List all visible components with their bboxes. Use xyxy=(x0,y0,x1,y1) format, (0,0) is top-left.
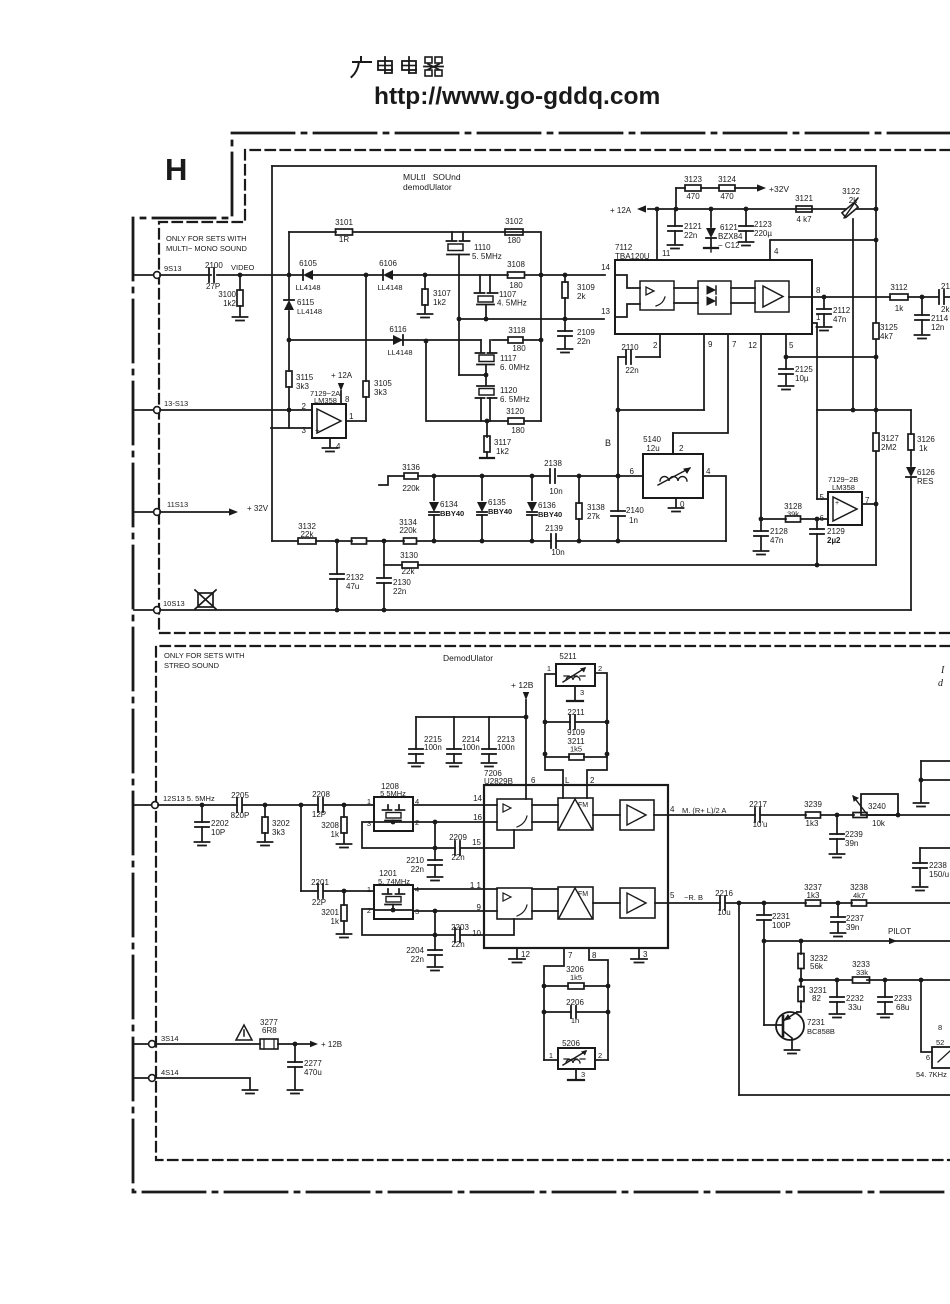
capacitor 2217 10u xyxy=(749,800,767,829)
svg-text:56k: 56k xyxy=(810,962,824,971)
svg-text:12: 12 xyxy=(748,341,757,350)
capacitor 2114 12n xyxy=(915,297,949,339)
terminal 11S13 +32V xyxy=(134,500,269,516)
svg-text:2123: 2123 xyxy=(754,220,772,229)
wire 3120 row xyxy=(426,341,541,423)
op-amp ground pin4 xyxy=(323,438,338,452)
svg-text:1: 1 xyxy=(547,664,551,673)
wire 3S14 +12B xyxy=(155,1040,342,1049)
svg-text:39k: 39k xyxy=(787,510,799,519)
svg-text:BZX84: BZX84 xyxy=(718,232,743,241)
resistor 3120 180 xyxy=(506,407,525,435)
svg-text:+ 12B: + 12B xyxy=(321,1040,342,1049)
svg-text:100n: 100n xyxy=(424,743,442,752)
capacitor 2129 2u2 xyxy=(810,519,845,565)
svg-text:2112: 2112 xyxy=(833,306,851,315)
capacitor 2202 10P xyxy=(195,805,230,846)
svg-text:BBY40: BBY40 xyxy=(440,509,464,518)
node B line xyxy=(605,438,611,448)
diode 6106 LL4148 xyxy=(377,259,402,292)
wire 4S14 to ground xyxy=(155,1078,258,1094)
svg-text:3: 3 xyxy=(580,688,584,697)
pin 8 output wire xyxy=(812,286,950,299)
resistor 3117 1k2 xyxy=(480,421,512,458)
IC internal wires xyxy=(615,275,812,317)
ground 5140 pin0 xyxy=(669,498,684,512)
wire 13S13 to op-amp pin2 xyxy=(160,408,312,413)
wire 3123 branch riser xyxy=(676,188,757,209)
svg-text:5 5MHz: 5 5MHz xyxy=(380,789,406,798)
resistor 3130 22k xyxy=(400,551,418,576)
variable inductor 5140 12u xyxy=(630,435,711,509)
svg-text:4: 4 xyxy=(706,467,711,476)
capacitor 2239 39n xyxy=(830,815,864,858)
power +12A rail xyxy=(610,205,876,215)
resistor 3101 1R xyxy=(335,218,353,244)
IC block demodulator diodes xyxy=(698,281,731,314)
svg-text:LL4148: LL4148 xyxy=(377,283,402,292)
svg-text:22n: 22n xyxy=(411,955,424,964)
wire to 5231 xyxy=(921,980,932,1052)
svg-text:5211: 5211 xyxy=(559,652,577,661)
wire +32V right rail xyxy=(874,166,879,565)
capacitor 2140 1n xyxy=(611,506,644,525)
wire op-amp pin3 xyxy=(271,427,312,429)
svg-text:10u: 10u xyxy=(717,908,730,917)
svg-text:1117: 1117 xyxy=(500,354,517,363)
stereo title Demodulator xyxy=(443,653,493,663)
svg-text:STREO SOUND: STREO SOUND xyxy=(164,661,220,670)
svg-text:3130: 3130 xyxy=(400,551,418,560)
filter 1201 5.74MHz xyxy=(367,869,419,919)
node 3107 junction xyxy=(423,273,428,278)
svg-text:10S13: 10S13 xyxy=(163,599,185,608)
svg-text:11S13: 11S13 xyxy=(167,500,188,509)
resistor 3134 220k xyxy=(399,518,418,544)
svg-text:6135: 6135 xyxy=(488,498,506,507)
svg-text:2205: 2205 xyxy=(231,791,249,800)
svg-text:1n: 1n xyxy=(571,1016,579,1025)
svg-text:3105: 3105 xyxy=(374,379,392,388)
resistor 3132 22k xyxy=(298,522,316,544)
resonator 1117 6.0MHz xyxy=(459,340,530,377)
wire op-amp2 pin7 xyxy=(862,503,876,505)
svg-text:−R. B: −R. B xyxy=(684,893,703,902)
wire 3101 row xyxy=(289,231,540,233)
svg-text:6134: 6134 xyxy=(440,500,458,509)
resistor 3208 1k xyxy=(321,805,351,848)
capacitor 2232 33u xyxy=(830,980,865,1018)
svg-text:10n: 10n xyxy=(551,548,564,557)
svg-text:3127: 3127 xyxy=(881,434,899,443)
svg-text:5. 74MHz: 5. 74MHz xyxy=(378,877,410,886)
svg-text:+ 12A: + 12A xyxy=(610,206,632,215)
svg-text:2: 2 xyxy=(679,444,684,453)
resistor 3109 2k xyxy=(562,275,595,319)
svg-text:1k: 1k xyxy=(331,917,340,926)
svg-text:3: 3 xyxy=(643,950,648,959)
svg-text:39n: 39n xyxy=(846,923,859,932)
diode 6126 RES xyxy=(906,467,935,610)
svg-text:3100: 3100 xyxy=(218,290,236,299)
pin 11 wire xyxy=(657,209,671,260)
wire 1208 pin4 to IC pin14 xyxy=(413,794,484,805)
svg-text:100n: 100n xyxy=(462,743,480,752)
wire filter bus vertical x541 xyxy=(539,232,544,421)
svg-text:2238: 2238 xyxy=(929,861,947,870)
svg-text:22n: 22n xyxy=(577,337,590,346)
svg-text:2216: 2216 xyxy=(715,889,733,898)
svg-text:3S14: 3S14 xyxy=(161,1034,179,1043)
capacitor 2100 27P xyxy=(205,261,223,291)
svg-text:100P: 100P xyxy=(772,921,791,930)
svg-text:2k: 2k xyxy=(941,305,950,314)
capacitor 2125 10u xyxy=(779,357,814,390)
power +12A op-amp supply arrow xyxy=(331,371,353,404)
svg-text:2204: 2204 xyxy=(406,946,424,955)
svg-text:2129: 2129 xyxy=(827,527,845,536)
resistor 3232 56k xyxy=(798,941,828,980)
svg-text:220k: 220k xyxy=(399,526,417,535)
wire 3101 feedback column xyxy=(288,232,290,340)
capacitor 2216 10u xyxy=(715,889,733,917)
svg-text:L: L xyxy=(565,776,570,785)
pin 14 label xyxy=(601,263,610,272)
svg-text:3240: 3240 xyxy=(868,802,886,811)
svg-text:6106: 6106 xyxy=(379,259,397,268)
svg-text:3126: 3126 xyxy=(917,435,935,444)
IC2 internal wires xyxy=(484,785,668,935)
svg-text:3101: 3101 xyxy=(335,218,353,227)
stereo section dashed border xyxy=(156,646,950,1160)
svg-text:2: 2 xyxy=(598,1051,602,1060)
pin 2 wire and capacitor 2110 22n xyxy=(618,334,660,375)
capacitor 2214 100n xyxy=(447,717,481,767)
capacitor 2206 1n xyxy=(542,998,611,1025)
wire op-amp2 pin5 xyxy=(817,410,828,499)
wire B line vertical x618 xyxy=(616,357,621,541)
cut text top-right xyxy=(938,665,945,689)
wire video to 3105 link xyxy=(364,273,369,381)
svg-text:22n: 22n xyxy=(684,231,697,240)
pin 13 label xyxy=(601,307,610,316)
resistor 3136 220k xyxy=(402,463,421,493)
resonator 1120 6.5MHz xyxy=(476,375,530,421)
svg-text:9: 9 xyxy=(477,903,482,912)
svg-text:3123: 3123 xyxy=(684,175,702,184)
wire video to IC pin14 xyxy=(240,273,605,278)
svg-text:1: 1 xyxy=(349,412,354,421)
resistor 3201 1k xyxy=(321,891,351,938)
resistor 3108 180 xyxy=(507,260,525,290)
svg-text:22n: 22n xyxy=(451,853,464,862)
svg-text:1 1: 1 1 xyxy=(470,881,482,890)
svg-text:2209: 2209 xyxy=(449,833,467,842)
capacitor 2205 820P xyxy=(231,791,250,820)
IC2 pin3 ground xyxy=(631,948,648,963)
svg-text:12P: 12P xyxy=(312,810,326,819)
capacitor 2123 220u xyxy=(739,209,773,246)
capacitor 2237 39n xyxy=(831,903,865,937)
resistor 3107 1k2 xyxy=(418,275,452,318)
svg-text:2208: 2208 xyxy=(312,790,330,799)
svg-text:33k: 33k xyxy=(856,968,868,977)
svg-text:47u: 47u xyxy=(346,582,359,591)
svg-text:12: 12 xyxy=(521,950,530,959)
wire 5140 pin4 xyxy=(703,476,726,541)
svg-text:8: 8 xyxy=(816,286,821,295)
wire ground bus 10S13 xyxy=(160,608,911,613)
wire 5211 ladder left xyxy=(543,674,563,785)
svg-text:− C12: − C12 xyxy=(718,241,740,250)
svg-text:2231: 2231 xyxy=(772,912,790,921)
svg-text:B: B xyxy=(605,438,611,448)
pin 4 wire xyxy=(770,240,876,260)
svg-text:470: 470 xyxy=(686,192,700,201)
svg-text:820P: 820P xyxy=(231,811,250,820)
IC2 block amp B xyxy=(620,888,655,918)
svg-text:2109: 2109 xyxy=(577,328,595,337)
svg-text:1k3: 1k3 xyxy=(806,819,819,828)
resistor 3128 39k xyxy=(784,502,802,522)
svg-text:3121: 3121 xyxy=(795,194,813,203)
diode 6105 LL4148 xyxy=(295,259,320,292)
svg-text:6R8: 6R8 xyxy=(262,1026,277,1035)
svg-text:LM358: LM358 xyxy=(314,396,337,405)
svg-text:12S13 5. 5MHz: 12S13 5. 5MHz xyxy=(163,794,215,803)
svg-text:2232: 2232 xyxy=(846,994,864,1003)
wire pin13 row xyxy=(459,317,604,322)
svg-text:2203: 2203 xyxy=(451,923,469,932)
zener 6121 BZX84-C12 xyxy=(704,209,743,252)
svg-text:4: 4 xyxy=(774,247,779,256)
resistor 3211 1k5 with 9109 xyxy=(545,728,607,760)
svg-text:2: 2 xyxy=(653,341,658,350)
svg-text:3120: 3120 xyxy=(506,407,524,416)
node VIDEO xyxy=(231,263,255,277)
wire lower input branch xyxy=(301,805,374,893)
svg-text:+ 32V: + 32V xyxy=(247,504,269,513)
svg-text:4: 4 xyxy=(670,805,675,814)
svg-text:LL4148: LL4148 xyxy=(295,283,320,292)
svg-text:2: 2 xyxy=(598,664,602,673)
svg-text:H: H xyxy=(165,152,187,187)
svg-text:54. 7KHz: 54. 7KHz xyxy=(916,1070,947,1079)
mono circuit outline top wire xyxy=(272,165,876,167)
svg-text:1k: 1k xyxy=(919,444,928,453)
svg-text:1: 1 xyxy=(367,885,371,894)
svg-text:13-S13: 13-S13 xyxy=(164,399,188,408)
IC block output amp xyxy=(755,281,789,312)
svg-text:22n: 22n xyxy=(393,587,406,596)
svg-text:demodUlator: demodUlator xyxy=(403,182,452,192)
svg-text:180: 180 xyxy=(507,236,521,245)
svg-text:1k: 1k xyxy=(331,830,340,839)
svg-text:220k: 220k xyxy=(402,484,420,493)
svg-text:82: 82 xyxy=(812,994,821,1003)
svg-text:4k7: 4k7 xyxy=(853,891,865,900)
svg-text:3208: 3208 xyxy=(321,821,339,830)
page grid letter H xyxy=(165,152,187,187)
svg-text:6: 6 xyxy=(926,1053,930,1062)
svg-text:+: + xyxy=(315,426,320,435)
node junction video/6115 xyxy=(287,273,292,278)
svg-text:22n: 22n xyxy=(451,940,464,949)
resistor 3121 4k7 xyxy=(795,194,813,224)
svg-text:1110: 1110 xyxy=(474,243,491,252)
svg-text:1: 1 xyxy=(549,1051,553,1060)
svg-text:RES: RES xyxy=(917,477,933,486)
svg-text:1k2: 1k2 xyxy=(433,298,446,307)
svg-text:39n: 39n xyxy=(845,839,858,848)
resistor 3138 27k xyxy=(576,476,605,541)
pin 1 wire xyxy=(812,313,821,410)
svg-text:10'u: 10'u xyxy=(753,820,768,829)
svg-text:52: 52 xyxy=(936,1038,944,1047)
svg-text:6: 6 xyxy=(531,776,536,785)
fusible resistor 3277 6R8 xyxy=(260,1018,278,1049)
resistor 3125 4k7 xyxy=(873,323,898,341)
svg-text:150/u: 150/u xyxy=(929,870,949,879)
wire 3122 wiper to demod line xyxy=(851,219,856,412)
diode 6115 LL4148 vertical xyxy=(284,298,322,316)
svg-text:4: 4 xyxy=(336,442,341,451)
wire stereo top-right corner xyxy=(914,761,950,807)
header chinese text guang-dian-dian-qi drawn strokes xyxy=(352,57,444,77)
capacitor 2201 22P xyxy=(311,878,329,907)
terminal 12S13 xyxy=(134,794,215,808)
terminal 9S13 xyxy=(134,264,182,278)
resistor 3206 1k5 xyxy=(542,965,611,989)
wire lower bus y541 xyxy=(272,539,726,544)
svg-text:+ 12B: + 12B xyxy=(511,680,534,690)
pilot sub-circuit box xyxy=(739,903,950,1095)
svg-text:1k: 1k xyxy=(895,304,904,313)
svg-text:DemodUlator: DemodUlator xyxy=(443,653,493,663)
svg-text:9: 9 xyxy=(708,340,713,349)
pin 5 wire xyxy=(784,334,876,359)
varicap 6136 BBY40 xyxy=(527,476,562,541)
variable inductor 5211 xyxy=(547,652,602,697)
svg-text:+ 12A: + 12A xyxy=(331,371,353,380)
svg-text:2132: 2132 xyxy=(346,573,364,582)
resistor 3231 82 xyxy=(798,980,827,1007)
IC2 pin7 wire xyxy=(544,948,573,1060)
svg-text:220µ: 220µ xyxy=(754,229,772,238)
svg-text:3102: 3102 xyxy=(505,217,523,226)
svg-text:470: 470 xyxy=(720,192,734,201)
svg-text:68u: 68u xyxy=(896,1003,909,1012)
capacitor 2277 470u xyxy=(288,1044,323,1094)
capacitor 2130 22n xyxy=(377,565,411,610)
svg-text:7112: 7112 xyxy=(615,243,633,252)
svg-text:2128: 2128 xyxy=(770,527,788,536)
variable inductor 5231 cut xyxy=(916,1023,950,1079)
svg-text:15: 15 xyxy=(472,838,481,847)
svg-text:27k: 27k xyxy=(587,512,601,521)
varicap 6134 BBY40 xyxy=(429,476,464,541)
IC 7206 U2829B xyxy=(484,769,668,948)
wire 1201 pin3 to IC pin9 xyxy=(413,903,484,913)
svg-text:PILOT: PILOT xyxy=(888,927,911,936)
resistor 3123 470 xyxy=(684,175,702,201)
svg-text:3138: 3138 xyxy=(587,503,605,512)
svg-text:8: 8 xyxy=(938,1023,942,1032)
transistor 7231 BC858B xyxy=(764,941,835,1054)
svg-text:47n: 47n xyxy=(770,536,783,545)
svg-text:ONLY FOR SETS WITH: ONLY FOR SETS WITH xyxy=(166,234,247,243)
svg-text:2201: 2201 xyxy=(311,878,329,887)
resistor 3105 3k3 xyxy=(346,379,392,421)
svg-text:180: 180 xyxy=(512,344,526,353)
svg-text:470u: 470u xyxy=(304,1068,322,1077)
svg-text:180: 180 xyxy=(509,281,523,290)
svg-text:180: 180 xyxy=(511,426,525,435)
terminal 10S13 xyxy=(134,599,185,613)
svg-text:2210: 2210 xyxy=(406,856,424,865)
terminal 3S14 xyxy=(134,1034,179,1047)
trimmer 3122 2k xyxy=(842,187,861,218)
svg-text:4S14: 4S14 xyxy=(161,1068,179,1077)
svg-text:+: + xyxy=(835,500,839,507)
resistor 3237 1k3 xyxy=(804,883,822,906)
IC block limiter xyxy=(640,281,674,310)
svg-text:LM358: LM358 xyxy=(832,483,855,492)
svg-text:5. 5MHz: 5. 5MHz xyxy=(472,252,502,261)
svg-text:6. 5MHz: 6. 5MHz xyxy=(500,395,530,404)
resonator 1110 5.5MHz xyxy=(447,232,502,261)
svg-text:3: 3 xyxy=(302,426,307,435)
capacitor 2203 22n xyxy=(451,923,469,949)
wire 1208 pin2 to IC pin16 xyxy=(413,813,484,824)
svg-text:22n: 22n xyxy=(625,366,638,375)
svg-text:5: 5 xyxy=(789,341,794,350)
no-connection crossed box xyxy=(195,590,216,609)
svg-text:2114: 2114 xyxy=(931,314,949,323)
resistor 3115 3k3 xyxy=(286,340,314,428)
svg-text:3108: 3108 xyxy=(507,260,525,269)
svg-text:2: 2 xyxy=(302,402,307,411)
svg-text:LL4148: LL4148 xyxy=(387,348,412,357)
svg-text:M. (R+ L)/2 A: M. (R+ L)/2 A xyxy=(682,806,726,815)
resistor 3102 180 xyxy=(505,217,523,245)
capacitor 21xx edge xyxy=(939,282,950,314)
capacitor 2204 22n xyxy=(406,911,442,971)
resistor 3112 1k xyxy=(890,283,908,313)
terminal 13S13 xyxy=(134,399,188,413)
resistor 3100 1k2 xyxy=(218,275,247,321)
svg-text:5140: 5140 xyxy=(643,435,661,444)
svg-text:+32V: +32V xyxy=(769,184,789,194)
svg-text:16: 16 xyxy=(473,813,482,822)
svg-text:5: 5 xyxy=(670,891,675,900)
svg-text:3124: 3124 xyxy=(718,175,736,184)
svg-text:2100: 2100 xyxy=(205,261,223,270)
svg-text:1: 1 xyxy=(367,797,371,806)
svg-text:U2829B: U2829B xyxy=(484,777,513,786)
svg-text:7: 7 xyxy=(568,951,573,960)
svg-text:http://www.go-gddq.com: http://www.go-gddq.com xyxy=(374,83,660,110)
wire PILOT line xyxy=(764,927,950,944)
svg-text:2121: 2121 xyxy=(684,222,702,231)
IC2 block FM demod A xyxy=(558,798,593,830)
wire 3136 row xyxy=(379,474,643,485)
ground 5206 pin3 xyxy=(568,1069,585,1080)
svg-text:BC858B: BC858B xyxy=(807,1027,835,1036)
svg-text:LL4148: LL4148 xyxy=(297,307,322,316)
svg-text:11: 11 xyxy=(662,249,671,258)
svg-text:12u: 12u xyxy=(646,444,659,453)
